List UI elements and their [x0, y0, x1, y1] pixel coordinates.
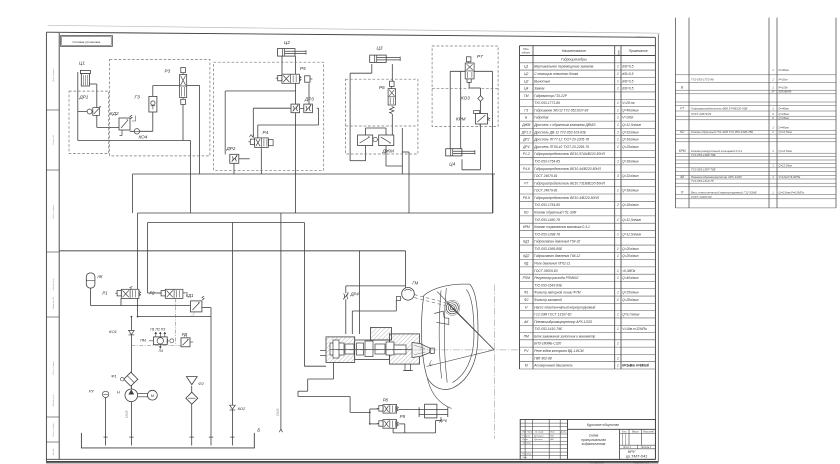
svg-text:гидравлическая: гидравлическая — [582, 442, 606, 446]
svg-text:D=40мм: D=40мм — [779, 107, 789, 111]
svg-text:КРМ: КРМ — [679, 149, 686, 153]
svg-text:1: 1 — [617, 101, 619, 105]
svg-text:1: 1 — [617, 123, 619, 127]
svg-text:КД1: КД1 — [186, 293, 194, 298]
svg-text:2: 2 — [616, 159, 619, 163]
svg-text:1: 1 — [617, 269, 619, 273]
svg-text:Клапан обратный Г51-32М ТУ2-05: Клапан обратный Г51-32М ТУ2-053-1400-78Е — [691, 130, 753, 134]
svg-text:Q=28л/мин: Q=28л/мин — [622, 298, 639, 302]
svg-text:Взам.инв.№: Взам.инв.№ — [52, 296, 55, 308]
svg-text:№ докум.: № докум. — [535, 431, 544, 434]
svg-text:=6,3МПа: =6,3МПа — [622, 269, 635, 273]
svg-text:1: 1 — [617, 138, 619, 142]
svg-text:Кузнецов: Кузнецов — [534, 435, 544, 437]
svg-text:КД2: КД2 — [110, 111, 119, 116]
svg-text:1: 1 — [617, 276, 619, 280]
svg-text:Выносные: Выносные — [534, 79, 550, 83]
svg-text:Q=12,5/мм: Q=12,5/мм — [779, 130, 792, 134]
svg-text:Курсовое общество: Курсовое общество — [587, 423, 619, 427]
svg-text:ГЗ: ГЗ — [135, 95, 140, 100]
svg-text:Дроссель ПГ55-42 ТУ27-20-2295-: Дроссель ПГ55-42 ТУ27-20-2295-76 — [533, 145, 589, 149]
svg-text:Клапан торможения маховика 0.3: Клапан торможения маховика 0.3-1 — [534, 225, 590, 229]
svg-text:Гидрораспределитель ВЕ6.574/В2: Гидрораспределитель ВЕ6.574/В220-50В — [691, 107, 747, 111]
svg-text:12х25: 12х25 — [276, 408, 280, 416]
svg-text:Примечание: Примечание — [629, 49, 648, 53]
svg-text:Р2: Р2 — [149, 291, 155, 296]
svg-text:1: 1 — [617, 364, 619, 368]
svg-text:ТУ2-053-1397-78Е: ТУ2-053-1397-78Е — [691, 167, 716, 171]
svg-text:С помощью внешнего блока: С помощью внешнего блока — [534, 72, 578, 76]
svg-text:d/D=0,5: d/D=0,5 — [622, 87, 633, 91]
svg-text:1: 1 — [617, 79, 619, 83]
svg-text:Инв.№ дубл.: Инв.№ дубл. — [52, 277, 55, 290]
svg-text:Пров.: Пров. — [522, 439, 528, 441]
svg-text:Регулятор расхода РПМ602: Регулятор расхода РПМ602 — [534, 276, 578, 280]
svg-text:обозн.: обозн. — [522, 51, 531, 55]
svg-text:КО1: КО1 — [109, 329, 117, 334]
svg-text:Дроссель ДВ-12 ТУ2-053-103-83Е: Дроссель ДВ-12 ТУ2-053-103-83Е — [533, 130, 587, 134]
svg-text:Масса: Масса — [632, 431, 640, 433]
svg-text:1: 1 — [617, 72, 619, 76]
svg-text:1: 1 — [617, 356, 619, 360]
svg-text:2: 2 — [616, 203, 619, 207]
svg-text:1: 1 — [617, 232, 619, 236]
svg-text:ДР4: ДР4 — [350, 291, 360, 296]
svg-text:Q=12,5л/мин: Q=12,5л/мин — [622, 123, 641, 127]
svg-text:D=40мм: D=40мм — [779, 126, 789, 130]
svg-text:ТУ2-053-1398-78Е: ТУ2-053-1398-78Е — [691, 153, 716, 157]
svg-text:Н: Н — [117, 389, 120, 394]
svg-text:гр.ТМТ-041: гр.ТМТ-041 — [626, 454, 648, 459]
svg-text:Инв.№ подл.: Инв.№ подл. — [52, 393, 55, 406]
svg-text:N=1кВт п=930об: N=1кВт п=930об — [622, 364, 650, 368]
svg-text:Г12-33М ГОСТ 13167-82: Г12-33М ГОСТ 13167-82 — [534, 313, 571, 317]
svg-text:Q=32л/мин: Q=32л/мин — [622, 130, 639, 134]
svg-text:Q=40л/мин: Q=40л/мин — [622, 108, 639, 112]
svg-text:Р8: Р8 — [383, 398, 389, 403]
svg-text:НВ: НВ — [551, 435, 555, 437]
svg-text:1: 1 — [617, 189, 619, 193]
svg-text:П1 П2 П3: П1 П2 П3 — [150, 327, 165, 331]
svg-text:Р3: Р3 — [165, 69, 171, 74]
svg-text:Q=20л/мин: Q=20л/мин — [622, 247, 639, 251]
svg-text:Р7: Р7 — [680, 107, 684, 111]
svg-text:Подп. и дата: Подп. и дата — [52, 361, 55, 375]
svg-text:Кол: Кол — [616, 50, 620, 55]
svg-text:Ф2: Ф2 — [198, 381, 204, 386]
svg-text:Р4: Р4 — [263, 130, 269, 135]
svg-text:Р4-6: Р4-6 — [523, 167, 530, 171]
svg-text:ДР1,3: ДР1,3 — [521, 130, 531, 134]
svg-text:Q=16мм: Q=16мм — [779, 112, 789, 116]
svg-text:П4: П4 — [159, 349, 163, 353]
svg-text:Ф1: Ф1 — [111, 374, 116, 379]
svg-text:Гидрораспределитель ВЕ10.731В/: Гидрораспределитель ВЕ10.731В/В220-50НЛ — [534, 181, 605, 185]
svg-text:1: 1 — [617, 87, 619, 91]
svg-text:D=40мм: D=40мм — [779, 68, 789, 72]
svg-text:Лит.: Лит. — [621, 431, 628, 433]
svg-text:Q=40л/мин: Q=40л/мин — [622, 276, 639, 280]
svg-text:3: 3 — [617, 174, 619, 178]
svg-text:1: 1 — [617, 342, 619, 346]
svg-text:Утв.: Утв. — [522, 457, 527, 459]
svg-text:Блок зажимания золотник и мано: Блок зажимания золотник и манометр — [534, 334, 595, 338]
svg-text:Перв. примен.: Перв. примен. — [53, 68, 55, 82]
svg-text:КО2: КО2 — [238, 406, 246, 411]
svg-text:РД: РД — [524, 262, 529, 266]
svg-text:Р=20кн: Р=20кн — [779, 77, 789, 81]
svg-text:V=1дм п=32МПа: V=1дм п=32МПа — [622, 327, 647, 331]
svg-text:М: М — [525, 364, 528, 368]
svg-text:1: 1 — [617, 298, 619, 302]
svg-text:1: 1 — [617, 65, 619, 69]
svg-text:ГОСТ 24679-81: ГОСТ 24679-81 — [534, 189, 558, 193]
svg-text:КД1: КД1 — [523, 240, 529, 244]
svg-text:Ц3: Ц3 — [524, 79, 528, 83]
svg-text:ДР2: ДР2 — [226, 146, 236, 151]
svg-text:Н.контр.: Н.контр. — [522, 453, 532, 455]
svg-text:Листов 1: Листов 1 — [640, 447, 652, 449]
svg-text:Гидроклапан давления Г66-12: Гидроклапан давления Г66-12 — [534, 254, 580, 258]
svg-text:ДР6: ДР6 — [439, 419, 448, 423]
svg-text:КД2: КД2 — [523, 254, 529, 258]
svg-text:Р8-9: Р8-9 — [523, 196, 530, 200]
svg-text:ДР1: ДР1 — [79, 95, 89, 100]
svg-text:1: 1 — [617, 254, 619, 258]
svg-text:ТУ2-053-1754-85: ТУ2-053-1754-85 — [534, 203, 560, 207]
svg-text:Гидробак: Гидробак — [534, 116, 549, 120]
svg-text:ТУ2-053-1398-78: ТУ2-053-1398-78 — [534, 232, 560, 236]
svg-text:ДЖМ: ДЖМ — [382, 149, 394, 154]
svg-text:Инв.№: Инв.№ — [52, 448, 55, 455]
svg-text:Q=16л/мин: Q=16л/мин — [622, 138, 639, 142]
svg-text:50Х16Н80: 50Х16Н80 — [779, 90, 792, 94]
svg-text:Подп. и дата: Подп. и дата — [52, 423, 55, 437]
svg-text:ТУ2-053-1771-86: ТУ2-053-1771-86 — [534, 101, 560, 105]
svg-text:ПМ: ПМ — [140, 339, 146, 343]
svg-text:12х25: 12х25 — [124, 410, 128, 418]
svg-text:ТУ2-053-1754-85: ТУ2-053-1754-85 — [534, 159, 560, 163]
svg-text:ТУ2-053-1643-83Е: ТУ2-053-1643-83Е — [534, 283, 563, 287]
svg-text:ГЗ: ГЗ — [524, 108, 528, 112]
svg-text:ТУ2-053-1460-78: ТУ2-053-1460-78 — [534, 218, 560, 222]
svg-text:2: 2 — [616, 130, 619, 134]
svg-text:Гидрораспределитель ВЕ10.574А/: Гидрораспределитель ВЕ10.574А/В220-50НЛ — [534, 152, 605, 156]
svg-text:Q=32л/мин: Q=32л/мин — [622, 174, 639, 178]
svg-text:Q=12,5л/мин: Q=12,5л/мин — [622, 232, 641, 236]
svg-text:Силовая установка: Силовая установка — [72, 40, 100, 44]
svg-text:Справ. №: Справ. № — [52, 135, 55, 145]
svg-text:АК: АК — [96, 274, 103, 279]
svg-text:Гидроклапан давления Г54-32: Гидроклапан давления Г54-32 — [534, 240, 580, 244]
svg-text:V=28 см: V=28 см — [622, 101, 635, 105]
svg-text:КО: КО — [680, 130, 685, 134]
svg-text:Пневмогидроаккумулятор АРХ-1/3: Пневмогидроаккумулятор АРХ-1/320 — [534, 320, 592, 324]
svg-text:Лист: Лист — [526, 432, 532, 434]
svg-text:Дроссель ПГ77-12 ТУ27-20-2205-: Дроссель ПГ77-12 ТУ27-20-2205-78 — [533, 138, 589, 142]
svg-text:ТУ2-053-1569-85Е: ТУ2-053-1569-85Е — [534, 247, 563, 251]
svg-text:Т.контр.: Т.контр. — [522, 443, 531, 445]
svg-text:Реле давления ПГ62-11: Реле давления ПГ62-11 — [534, 262, 570, 266]
svg-text:Вертикальное перемещение захва: Вертикальное перемещение захвата — [534, 65, 593, 69]
svg-text:Дата: Дата — [560, 432, 567, 434]
svg-text:1: 1 — [617, 313, 619, 317]
svg-text:Гидрораспределитель ВЕ10.44/В2: Гидрораспределитель ВЕ10.44/В220-50НЛ — [534, 167, 601, 171]
svg-text:ГОСТ 24679-81: ГОСТ 24679-81 — [534, 174, 558, 178]
svg-text:d/D=0,5: d/D=0,5 — [622, 65, 633, 69]
svg-text:Q=25л/мин: Q=25л/мин — [622, 291, 639, 295]
svg-text:М: М — [151, 394, 154, 398]
svg-text:Масштаб: Масштаб — [643, 431, 654, 433]
svg-text:Клапан обратный Г51-33М: Клапан обратный Г51-33М — [534, 210, 576, 214]
svg-text:КО3: КО3 — [461, 96, 470, 101]
svg-text:Р7: Р7 — [524, 181, 528, 185]
svg-text:ДЖМ: ДЖМ — [521, 123, 530, 127]
svg-text:БПЗ-180МБ-С320: БПЗ-180МБ-С320 — [534, 342, 561, 346]
svg-text:ГМ: ГМ — [412, 281, 418, 286]
svg-text:ТУ2-053-1410-79Е: ТУ2-053-1410-79Е — [534, 327, 563, 331]
svg-text:Q=25мм: Q=25мм — [779, 116, 789, 120]
svg-text:КО: КО — [524, 210, 529, 214]
svg-text:Q=0,5/мм,Р=6,3МПа: Q=0,5/мм,Р=6,3МПа — [779, 191, 805, 195]
svg-text:Q=12,5л/мин: Q=12,5л/мин — [622, 218, 641, 222]
svg-text:Ф1: Ф1 — [524, 291, 529, 295]
svg-text:Ц3: Ц3 — [377, 46, 383, 51]
svg-text:Q=12,5/мм: Q=12,5/мм — [779, 164, 792, 168]
svg-text:Р=100к: Р=100к — [779, 85, 789, 89]
svg-text:1: 1 — [617, 218, 619, 222]
svg-text:Гидрозамок ЗКУ12 ТУ2-0521637-8: Гидрозамок ЗКУ12 ТУ2-0521637-83 — [534, 108, 588, 112]
svg-text:1: 1 — [617, 108, 619, 112]
svg-text:Ф2: Ф2 — [524, 298, 529, 302]
svg-text:Ц2: Ц2 — [524, 72, 528, 76]
svg-text:Р5: Р5 — [300, 66, 306, 71]
svg-text:ПВТ 802-88: ПВТ 802-88 — [534, 356, 552, 360]
svg-text:Копировал: Копировал — [590, 460, 604, 464]
svg-text:ГОСТ 26005-83: ГОСТ 26005-83 — [534, 269, 558, 273]
svg-text:17: 17 — [771, 90, 775, 94]
svg-text:РД: РД — [182, 332, 187, 337]
svg-text:ГОСТ 13167-83: ГОСТ 13167-83 — [691, 195, 712, 199]
svg-text:КО4: КО4 — [139, 134, 148, 139]
svg-text:Q=18л/мин: Q=18л/мин — [622, 189, 639, 193]
svg-text:V=1дм,Р=6,3МПа: V=1дм,Р=6,3МПа — [779, 175, 801, 179]
svg-text:ГМ: ГМ — [524, 94, 529, 98]
svg-text:ГОСТ 24679-81: ГОСТ 24679-81 — [691, 112, 712, 116]
svg-text:d/D=0,5: d/D=0,5 — [622, 72, 633, 76]
svg-text:1: 1 — [617, 116, 619, 120]
svg-text:Р1-2: Р1-2 — [523, 152, 530, 156]
svg-text:Q=9,7л/мин: Q=9,7л/мин — [622, 313, 639, 317]
svg-text:1: 1 — [617, 291, 619, 295]
svg-text:Q=18л/мин: Q=18л/мин — [622, 159, 639, 163]
svg-text:V=160л: V=160л — [622, 116, 633, 120]
svg-text:1: 1 — [617, 327, 619, 331]
svg-text:1: 1 — [617, 247, 619, 251]
svg-text:ДР3: ДР3 — [304, 96, 314, 101]
svg-text:d/D=0,5: d/D=0,5 — [622, 79, 633, 83]
svg-text:Зажим: Зажим — [534, 87, 545, 91]
svg-text:Ц4: Ц4 — [449, 161, 455, 166]
svg-text:2: 2 — [771, 130, 774, 134]
svg-text:ТУ2-053-1772-86: ТУ2-053-1772-86 — [691, 77, 714, 81]
svg-text:ДР4: ДР4 — [522, 145, 530, 149]
svg-text:Ц1: Ц1 — [79, 61, 85, 66]
svg-text:Дроссель с обратным клапаном Д: Дроссель с обратным клапаном ДВМ/3 — [533, 123, 595, 127]
svg-text:Ц2: Ц2 — [284, 40, 290, 45]
svg-text:Б: Б — [257, 428, 260, 433]
svg-text:Р6: Р6 — [379, 85, 385, 90]
svg-text:Р7: Р7 — [477, 54, 483, 59]
svg-text:Русанов: Русанов — [534, 439, 543, 441]
svg-text:Q=20л/мин: Q=20л/мин — [622, 254, 639, 258]
svg-text:Асинхронный двигатель: Асинхронный двигатель — [533, 364, 573, 368]
svg-text:РУ: РУ — [89, 389, 94, 394]
svg-text:Насос пластинчатый нерегулируе: Насос пластинчатый нерегулируемый — [534, 305, 595, 309]
svg-text:Q=12,5/мм: Q=12,5/мм — [779, 149, 792, 153]
svg-text:ДР2: ДР2 — [522, 138, 530, 142]
svg-text:Фильтр напорной линии Ф7М: Фильтр напорной линии Ф7М — [534, 291, 581, 295]
svg-text:Р9: Р9 — [400, 414, 406, 419]
svg-text:Разраб.: Разраб. — [522, 435, 530, 437]
svg-text:ТУ2-053-1410-78: ТУ2-053-1410-78 — [691, 179, 714, 183]
svg-text:Гидрораспределитель ВЕ10.4/В22: Гидрораспределитель ВЕ10.4/В220-50НЛ — [534, 196, 600, 200]
svg-text:1: 1 — [617, 145, 619, 149]
svg-text:РПМ: РПМ — [523, 276, 531, 280]
svg-text:Р1: Р1 — [102, 291, 107, 296]
svg-text:Подп.: Подп. — [550, 431, 556, 434]
svg-text:Ц1: Ц1 — [524, 65, 528, 69]
svg-text:Фильтр заливной: Фильтр заливной — [534, 298, 562, 302]
svg-text:Реле ждем контроля ВД-1-ВСМ: Реле ждем контроля ВД-1-ВСМ — [534, 349, 584, 353]
svg-text:ПМ: ПМ — [524, 334, 529, 338]
svg-text:Гидромотор Г15-22Р: Гидромотор Г15-22Р — [534, 94, 568, 98]
svg-text:Q=25л/мин: Q=25л/мин — [622, 145, 639, 149]
svg-text:Формат A3: Формат A3 — [633, 460, 649, 464]
svg-text:Подп. и дата: Подп. и дата — [52, 205, 55, 219]
svg-text:Q=18л/мин: Q=18л/мин — [622, 203, 639, 207]
svg-text:КРМ: КРМ — [523, 225, 530, 229]
svg-text:Гидроцилиндры: Гидроцилиндры — [561, 57, 587, 61]
svg-text:Ц4: Ц4 — [524, 87, 528, 91]
svg-text:КРМ: КРМ — [456, 117, 466, 122]
svg-text:Наименование: Наименование — [562, 49, 586, 53]
svg-text:АВ: АВ — [550, 438, 554, 441]
